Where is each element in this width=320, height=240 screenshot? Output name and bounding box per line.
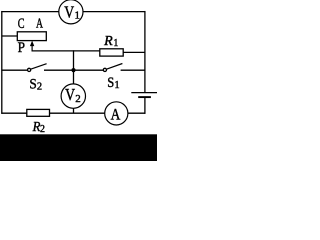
node junction dot [71,68,75,72]
rheostat wire left lead [1,35,17,37]
svg-text:A: A [111,107,121,124]
switch S2 [1,64,46,72]
svg-text:P: P [18,40,25,56]
battery negative plate (short) [138,96,151,98]
svg-text:2: 2 [40,124,45,135]
label S2 [29,76,42,92]
svg-text:C: C [18,16,25,32]
wire right rail lower [144,97,146,114]
black bar (image crop strip) [0,134,157,161]
wire right rail upper [144,11,146,93]
switch S1 [103,64,122,72]
label R2 [32,119,45,135]
wire P slider to R1 [32,50,100,52]
svg-text:1: 1 [114,80,119,91]
wire bottom right segment [128,112,146,114]
voltmeter V2 [61,84,85,108]
label R1 [103,34,118,49]
wire bottom left segment [1,112,26,114]
battery positive plate (long) [131,92,157,94]
wire top rail left segment [1,11,59,13]
svg-text:2: 2 [75,93,81,105]
label S1 [107,75,119,91]
resistor R2 [27,109,50,116]
svg-text:S: S [107,75,114,91]
svg-text:2: 2 [37,82,42,93]
svg-text:A: A [36,16,43,31]
wire left rail [1,11,3,114]
svg-text:1: 1 [75,9,81,21]
wire S1 to right rail [121,69,146,71]
svg-text:1: 1 [113,38,118,49]
wire S2 to S1 [44,69,103,71]
wire bottom middle segment [50,112,106,114]
wire V2 stub [73,108,75,113]
wire top rail right segment [83,11,146,13]
svg-text:V: V [65,85,75,104]
svg-text:V: V [64,2,74,21]
rheostat slider arrow [30,41,34,51]
ammeter A [105,102,128,125]
wire R1 to right rail [123,51,145,53]
svg-text:R: R [103,34,113,49]
resistor R1 [100,49,123,56]
rheostat body [17,32,46,41]
wire junction vertical to V2 [73,50,75,84]
voltmeter V1 [59,0,83,24]
svg-text:S: S [29,76,36,92]
